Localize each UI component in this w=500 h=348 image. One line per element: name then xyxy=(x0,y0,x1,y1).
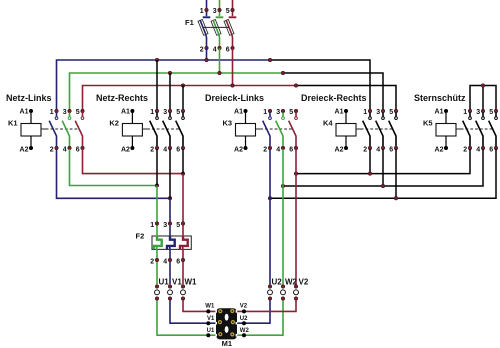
F1 pin 4 dot xyxy=(218,46,221,49)
K5 contact pole 5-6 xyxy=(489,109,498,154)
motor terminal stud xyxy=(230,309,234,313)
svg-text:A2: A2 xyxy=(234,147,243,154)
motor V1 connection dot xyxy=(207,322,210,325)
contactor K5 (Sternsch&#252;tz) xyxy=(414,93,498,154)
svg-text:Sternschütz: Sternschütz xyxy=(414,93,466,103)
F1 pin 2 dot xyxy=(205,46,208,49)
svg-text:K1: K1 xyxy=(8,119,18,128)
svg-text:1: 1 xyxy=(200,8,204,15)
svg-text:U1: U1 xyxy=(207,328,215,334)
terminal W1 xyxy=(181,277,198,300)
svg-text:Dreieck-Rechts: Dreieck-Rechts xyxy=(301,93,367,103)
F2 heater element pole 5 xyxy=(180,236,188,249)
K4 mechanical linkage (dashed) xyxy=(356,128,364,130)
K5 contact pole 3-4 xyxy=(476,109,485,154)
svg-text:2: 2 xyxy=(50,147,54,154)
wire W1 terminal to motor W1 (dark red) xyxy=(183,301,217,312)
K1 coil A2 terminal xyxy=(30,136,32,146)
wire U2 terminal to motor U2 (navy) xyxy=(237,301,271,324)
wire K3 pin4 (green) down to W2 terminal xyxy=(282,149,284,285)
K3 contact pole 3-4 xyxy=(276,109,285,154)
wire K2 pin3 drop xyxy=(169,73,171,110)
svg-text:6: 6 xyxy=(176,259,180,266)
F1 pole pin 3 wire xyxy=(219,0,221,8)
motor terminal stud xyxy=(218,320,222,324)
motor W2 connection dot xyxy=(242,334,245,337)
svg-text:2: 2 xyxy=(200,47,204,54)
contactor K4 (Dreieck-Rechts) xyxy=(301,93,398,154)
svg-text:U2: U2 xyxy=(272,277,283,286)
K4 coil box xyxy=(336,124,356,137)
motor terminal stud xyxy=(218,332,222,336)
svg-text:U2: U2 xyxy=(240,316,248,322)
svg-text:Dreieck-Links: Dreieck-Links xyxy=(205,93,264,103)
wire L2 bus black extension to K4 pin3 xyxy=(283,73,383,110)
K4 contact pole 5-6 xyxy=(389,109,398,154)
K3 coil A2 terminal xyxy=(245,136,247,146)
svg-text:6: 6 xyxy=(226,47,230,54)
svg-text:W1: W1 xyxy=(205,304,215,310)
K5 contact pole 1-2 xyxy=(463,109,472,154)
F1 pin 5 dot xyxy=(231,8,234,11)
junction K3.2 / U2 row xyxy=(268,197,271,200)
svg-text:4: 4 xyxy=(213,47,217,54)
wire K2 pin5 drop xyxy=(182,86,184,111)
junction K4.2 / V2 row xyxy=(368,172,371,175)
junction K3.3 tap on L2 bus xyxy=(281,71,284,74)
svg-text:K5: K5 xyxy=(423,119,433,128)
wire U1 terminal to motor U1 (green) xyxy=(157,301,217,336)
svg-text:V2: V2 xyxy=(240,304,248,310)
K5 coil box xyxy=(436,124,456,137)
F1 fuse body pole 1 xyxy=(198,19,208,35)
K1 mechanical linkage (dashed) xyxy=(41,128,49,130)
svg-text:K4: K4 xyxy=(323,119,333,128)
svg-text:W2: W2 xyxy=(240,328,250,334)
K1 contact pole 1-2 xyxy=(49,109,58,154)
wire F2 pin4 to V1 terminal (navy) xyxy=(169,262,171,284)
wire K5 pin3 stub xyxy=(482,86,484,111)
K4 contact pole 1-2 xyxy=(363,109,372,154)
svg-text:4: 4 xyxy=(163,259,167,266)
F2 heater element pole 1 xyxy=(154,236,162,249)
junction F1.2/L1 bus xyxy=(205,58,208,61)
wire F1 pin6 drop to L3 bus xyxy=(232,48,234,86)
junction K2.3 tap on L2 bus xyxy=(168,71,171,74)
wire K1 pin4 (green) to K2.2 column xyxy=(70,149,158,186)
svg-text:3: 3 xyxy=(213,8,217,15)
svg-text:A2: A2 xyxy=(435,147,444,154)
svg-text:6: 6 xyxy=(76,147,80,154)
junction K1.2 / K2.4 node V1 xyxy=(168,197,171,200)
wire node V2: K3.6 junction to K5.2, dark red row xyxy=(296,149,470,174)
F2 pole 3-4 xyxy=(163,222,174,266)
motor U2 connection dot xyxy=(242,322,245,325)
fuse-switch F1 xyxy=(185,0,236,54)
F2 pole 1-2 xyxy=(150,222,161,266)
svg-text:4: 4 xyxy=(63,147,67,154)
svg-text:W1: W1 xyxy=(185,277,198,286)
svg-text:6: 6 xyxy=(289,147,293,154)
svg-text:4: 4 xyxy=(163,147,167,154)
F2 heater element pole 3 xyxy=(167,236,175,249)
motor terminal stud xyxy=(218,309,222,313)
F1 pole pin 5 wire xyxy=(232,0,234,8)
wire node U2: K3.2 junction to K5.6 row xyxy=(270,149,496,198)
svg-text:A1: A1 xyxy=(335,109,344,116)
wire L3 bus black extension to K4 pin5 xyxy=(296,86,396,111)
F1 pin 6 dot xyxy=(231,46,234,49)
motor U1 connection dot xyxy=(207,334,210,337)
svg-text:5: 5 xyxy=(226,8,230,15)
svg-text:Netz-Links: Netz-Links xyxy=(6,93,52,103)
svg-text:5: 5 xyxy=(289,109,293,116)
contactor K3 (Dreieck-Links) xyxy=(205,93,298,154)
motor V2 connection dot xyxy=(242,310,245,313)
F1 pole 3 fixed contact T-bar xyxy=(219,12,221,16)
wire F1 pin2 drop to L1 bus xyxy=(206,48,208,60)
K1 contact pole 5-6 xyxy=(75,109,84,154)
svg-text:U1: U1 xyxy=(159,277,170,286)
wire K4 pin2 drop to V2 row xyxy=(369,149,371,174)
svg-text:6: 6 xyxy=(176,147,180,154)
F1 pole pin 2 wire xyxy=(205,35,208,46)
F1 pole pin 6 wire xyxy=(231,35,234,46)
svg-text:4: 4 xyxy=(376,147,380,154)
wire K4 pin6 drop to U2 row xyxy=(395,149,397,198)
svg-text:A2: A2 xyxy=(335,147,344,154)
K4 coil A2 terminal xyxy=(345,136,347,146)
wire F1 pin4 drop to L2 bus xyxy=(219,48,221,73)
K4 contact pole 3-4 xyxy=(376,109,385,154)
svg-text:F2: F2 xyxy=(136,232,145,241)
wire node U1 down to F2 pin1 (green) xyxy=(156,186,158,223)
wire node V1 down to F2 pin3 (navy) xyxy=(169,198,171,222)
svg-text:1: 1 xyxy=(150,222,154,229)
svg-text:4: 4 xyxy=(476,147,480,154)
K3 coil box xyxy=(236,124,256,137)
K1 contact pole 3-4 xyxy=(62,109,71,154)
motor terminal stud xyxy=(231,320,235,324)
K5 mechanical linkage (dashed) xyxy=(456,128,464,130)
svg-text:V1: V1 xyxy=(172,277,182,286)
svg-text:1: 1 xyxy=(363,109,367,116)
K2 contact pole 1-2 xyxy=(150,109,159,154)
junction K2.1 tap on L1 bus xyxy=(155,58,158,61)
svg-text:2: 2 xyxy=(150,147,154,154)
svg-text:5: 5 xyxy=(489,109,493,116)
junction K3.1 tap on L1 bus xyxy=(268,58,271,61)
wire K3 pin2 (navy) down to U2 terminal xyxy=(269,149,271,285)
K3 contact pole 5-6 xyxy=(289,109,298,154)
motor terminal stud xyxy=(230,332,234,336)
F1 pin 1 dot xyxy=(205,8,208,11)
svg-text:5: 5 xyxy=(389,109,393,116)
svg-text:3: 3 xyxy=(276,109,280,116)
junction K4.4 / W2 row xyxy=(381,184,384,187)
F1 pin 3 dot xyxy=(218,8,221,11)
motor M1 terminal box xyxy=(215,308,237,348)
svg-text:3: 3 xyxy=(63,109,67,116)
svg-text:2: 2 xyxy=(150,259,154,266)
svg-text:A1: A1 xyxy=(234,109,243,116)
svg-text:6: 6 xyxy=(389,147,393,154)
wire F2 pin6 to W1 terminal (dark red) xyxy=(182,262,184,284)
wire K2 pin4 down xyxy=(169,149,171,198)
junction F1.4/L2 bus xyxy=(218,71,221,74)
K2 contact pole 5-6 xyxy=(176,109,185,154)
wire K5 shorting bar xyxy=(470,86,496,111)
F1 pole 1 fixed contact T-bar xyxy=(206,12,208,16)
terminal V2 xyxy=(294,277,309,300)
wire K2 pin1 drop xyxy=(156,60,158,110)
svg-text:K2: K2 xyxy=(109,119,119,128)
svg-text:F1: F1 xyxy=(185,18,194,27)
F1 pole pin 4 wire xyxy=(218,35,221,46)
svg-text:5: 5 xyxy=(176,109,180,116)
wire K2 pin6 down xyxy=(182,149,184,174)
svg-text:K3: K3 xyxy=(223,119,233,128)
wire L3 bus (dark red) from K1 pin5 to K3 pin5 tap xyxy=(83,86,297,111)
F1 pole pin 1 wire xyxy=(206,0,208,8)
svg-text:A2: A2 xyxy=(121,147,130,154)
svg-text:Netz-Rechts: Netz-Rechts xyxy=(96,93,148,103)
svg-text:3: 3 xyxy=(376,109,380,116)
K2 coil A2 terminal xyxy=(131,136,133,146)
F2 pole 5-6 xyxy=(176,222,187,266)
K5 coil A2 terminal xyxy=(445,136,447,146)
K2 coil box xyxy=(122,124,142,137)
wire L2 bus (green) from K1 pin3 to K3 pin3 tap xyxy=(70,73,284,110)
wire K1 pin6 (dark red) to K2.6 column xyxy=(83,149,184,174)
terminal W2 xyxy=(281,277,298,300)
junction K3.5 tap on L3 bus xyxy=(294,84,297,87)
svg-text:M1: M1 xyxy=(222,339,232,348)
svg-text:2: 2 xyxy=(463,147,467,154)
svg-text:1: 1 xyxy=(463,109,467,116)
svg-text:5: 5 xyxy=(76,109,80,116)
F1 fuse body pole 3 xyxy=(211,19,221,35)
junction K2.5 tap on L3 bus xyxy=(181,84,184,87)
svg-text:3: 3 xyxy=(163,222,167,229)
wire K2 pin2 down xyxy=(156,149,158,186)
contactor K2 (Netz-Rechts) xyxy=(96,93,185,154)
terminal U1 xyxy=(155,277,170,300)
svg-text:4: 4 xyxy=(276,147,280,154)
wire K4 pin4 drop to W2 row xyxy=(382,149,384,186)
svg-text:5: 5 xyxy=(176,222,180,229)
K1 coil box xyxy=(21,124,41,137)
junction K1.4 / K2.2 node U1 xyxy=(155,184,158,187)
svg-text:A2: A2 xyxy=(20,147,29,154)
wire L1 bus (navy) from K1 pin1 to K3 pin1 tap xyxy=(57,60,271,110)
svg-text:V2: V2 xyxy=(299,277,309,286)
terminal U2 xyxy=(268,277,283,300)
motor slot bottom xyxy=(225,326,229,333)
svg-text:2: 2 xyxy=(263,147,267,154)
wire V2 terminal to motor V2 (dark red) xyxy=(237,301,297,312)
junction F1.6/L3 bus xyxy=(231,84,234,87)
svg-text:6: 6 xyxy=(489,147,493,154)
contactor K1 (Netz-Links) xyxy=(6,93,84,154)
K2 contact pole 3-4 xyxy=(163,109,172,154)
K2 mechanical linkage (dashed) xyxy=(142,128,150,130)
wire K1 pin2 (navy) to K2.4 column xyxy=(57,149,171,198)
wire V1 terminal to motor V1 (navy) xyxy=(170,301,217,324)
svg-text:3: 3 xyxy=(163,109,167,116)
wire W2 terminal to motor W2 (green) xyxy=(237,301,284,336)
wire L1 bus black extension to K4 pin1 xyxy=(270,60,370,110)
terminal V1 xyxy=(168,277,183,300)
svg-text:V1: V1 xyxy=(207,316,215,322)
svg-text:1: 1 xyxy=(263,109,267,116)
junction K3.6 / V2 row xyxy=(294,172,297,175)
svg-text:1: 1 xyxy=(150,109,154,116)
svg-text:2: 2 xyxy=(363,147,367,154)
thermal overload relay F2 xyxy=(136,222,192,266)
motor slot top xyxy=(225,314,229,321)
svg-text:A1: A1 xyxy=(121,109,130,116)
junction K3.4 / W2 row xyxy=(281,184,284,187)
junction K4.6 / U2 row xyxy=(394,197,397,200)
svg-text:1: 1 xyxy=(50,109,54,116)
svg-text:A1: A1 xyxy=(20,109,29,116)
K3 contact pole 1-2 xyxy=(263,109,272,154)
wire node W1 down to F2 pin5 (dark red) xyxy=(182,174,184,222)
K3 mechanical linkage (dashed) xyxy=(256,128,264,130)
F2 body box xyxy=(152,236,191,249)
junction K1.6 / K2.6 node W1 xyxy=(181,172,184,175)
svg-text:3: 3 xyxy=(476,109,480,116)
wire F2 pin2 to U1 terminal (green) xyxy=(156,262,158,284)
wire node W2: K3.4 junction to K5.4 row xyxy=(283,149,483,186)
wire K3 pin6 (dark red) down to V2 terminal xyxy=(295,149,297,285)
F1 fuse body pole 5 xyxy=(224,19,234,35)
F1 pole 5 fixed contact T-bar xyxy=(232,12,234,16)
junction K5 bar / pin3 xyxy=(481,84,484,87)
svg-text:A1: A1 xyxy=(435,109,444,116)
motor W1 connection dot xyxy=(207,310,210,313)
F1 mechanical link xyxy=(203,26,230,28)
